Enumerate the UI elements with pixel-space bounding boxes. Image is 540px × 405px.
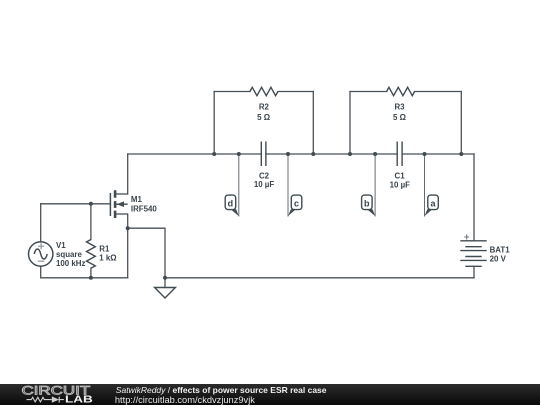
wire R2 top leads	[214, 91, 313, 93]
wire top rail mid segment	[266, 153, 397, 155]
junction R2 left	[212, 152, 216, 156]
svg-text:LAB: LAB	[65, 395, 93, 405]
wire V1 top stub	[40, 204, 42, 242]
junction node c	[286, 152, 290, 156]
wire node a stub	[424, 154, 426, 216]
svg-text:V1: V1	[56, 241, 66, 250]
source V1 sine	[34, 249, 47, 259]
svg-text:100 kHz: 100 kHz	[56, 259, 85, 268]
svg-text:C1: C1	[395, 171, 406, 180]
wire source-to-ground branch	[128, 228, 165, 278]
svg-text:5 Ω: 5 Ω	[257, 113, 270, 122]
transistor M1	[110, 190, 127, 218]
svg-text:R1: R1	[99, 245, 110, 254]
svg-text:b: b	[364, 198, 370, 208]
svg-text:5 Ω: 5 Ω	[393, 113, 406, 122]
svg-text:1 kΩ: 1 kΩ	[99, 253, 116, 262]
wire top rail left segment	[128, 153, 262, 155]
svg-text:R2: R2	[259, 103, 270, 112]
wire R3 top leads	[350, 91, 461, 93]
svg-text:20 V: 20 V	[490, 254, 507, 263]
wire ground stub	[164, 278, 166, 288]
wire R1 bottom lead	[90, 268, 92, 278]
wire R3 left vertical	[349, 92, 351, 155]
capacitor C2 plates	[261, 142, 266, 167]
junction node a	[423, 152, 427, 156]
wire drain drop	[127, 154, 129, 194]
svg-text:10 µF: 10 µF	[254, 180, 275, 189]
wire R1 top lead	[90, 204, 92, 240]
ground	[155, 288, 176, 299]
battery BAT1 plates	[460, 241, 486, 266]
svg-text:SatwikReddy / effects of power: SatwikReddy / effects of power source ES…	[116, 385, 327, 395]
footer bar	[0, 384, 540, 405]
svg-text:d: d	[228, 198, 234, 208]
wire battery bottom stub	[473, 266, 475, 278]
wire node c stub	[287, 154, 289, 216]
svg-text:http://circuitlab.com/ckdvzjun: http://circuitlab.com/ckdvzjunz9vjk	[115, 395, 255, 405]
junction R3 right	[459, 152, 463, 156]
svg-text:C2: C2	[259, 171, 270, 180]
wire node b stub	[374, 154, 376, 216]
logo squiggle resistor-diode	[27, 397, 64, 403]
source V1 circle	[29, 242, 53, 266]
junction R3 left	[348, 152, 352, 156]
junction ground rail	[163, 276, 167, 280]
node a flag	[425, 195, 439, 216]
wire bottom rail right	[165, 277, 474, 279]
junction R1 top / gate	[89, 202, 93, 206]
wire R2 right vertical	[312, 92, 314, 155]
junction node d	[237, 152, 241, 156]
node d flag	[225, 195, 239, 216]
wire battery top drop	[473, 154, 475, 241]
junction R2 right	[311, 152, 315, 156]
wire mosfet source vertical	[127, 214, 129, 278]
resistor R3	[387, 87, 415, 95]
wire R3 right vertical	[460, 92, 462, 155]
capacitor C1 plates	[397, 142, 402, 167]
resistor R2	[250, 87, 278, 95]
svg-text:10 µF: 10 µF	[390, 180, 411, 189]
svg-text:M1: M1	[131, 195, 143, 204]
resistor R1	[87, 240, 96, 269]
wire V1 bottom stub	[40, 266, 42, 278]
svg-text:square: square	[56, 250, 82, 259]
wire gate lead	[41, 203, 111, 205]
battery plus sign	[464, 235, 469, 240]
source V1 plus minus	[38, 243, 45, 261]
svg-text:R3: R3	[394, 103, 405, 112]
wire top rail right segment	[402, 153, 474, 155]
wire R2 left vertical	[213, 92, 215, 155]
wire node d stub	[238, 154, 240, 216]
wire bottom rail left	[41, 277, 128, 279]
svg-text:IRF540: IRF540	[131, 205, 157, 214]
junction M1 source branch	[126, 226, 130, 230]
junction R1 bottom rail	[89, 276, 93, 280]
node c flag	[288, 195, 302, 216]
svg-text:BAT1: BAT1	[490, 245, 511, 254]
node b flag	[362, 195, 376, 216]
svg-text:c: c	[294, 198, 299, 208]
junction node b	[373, 152, 377, 156]
